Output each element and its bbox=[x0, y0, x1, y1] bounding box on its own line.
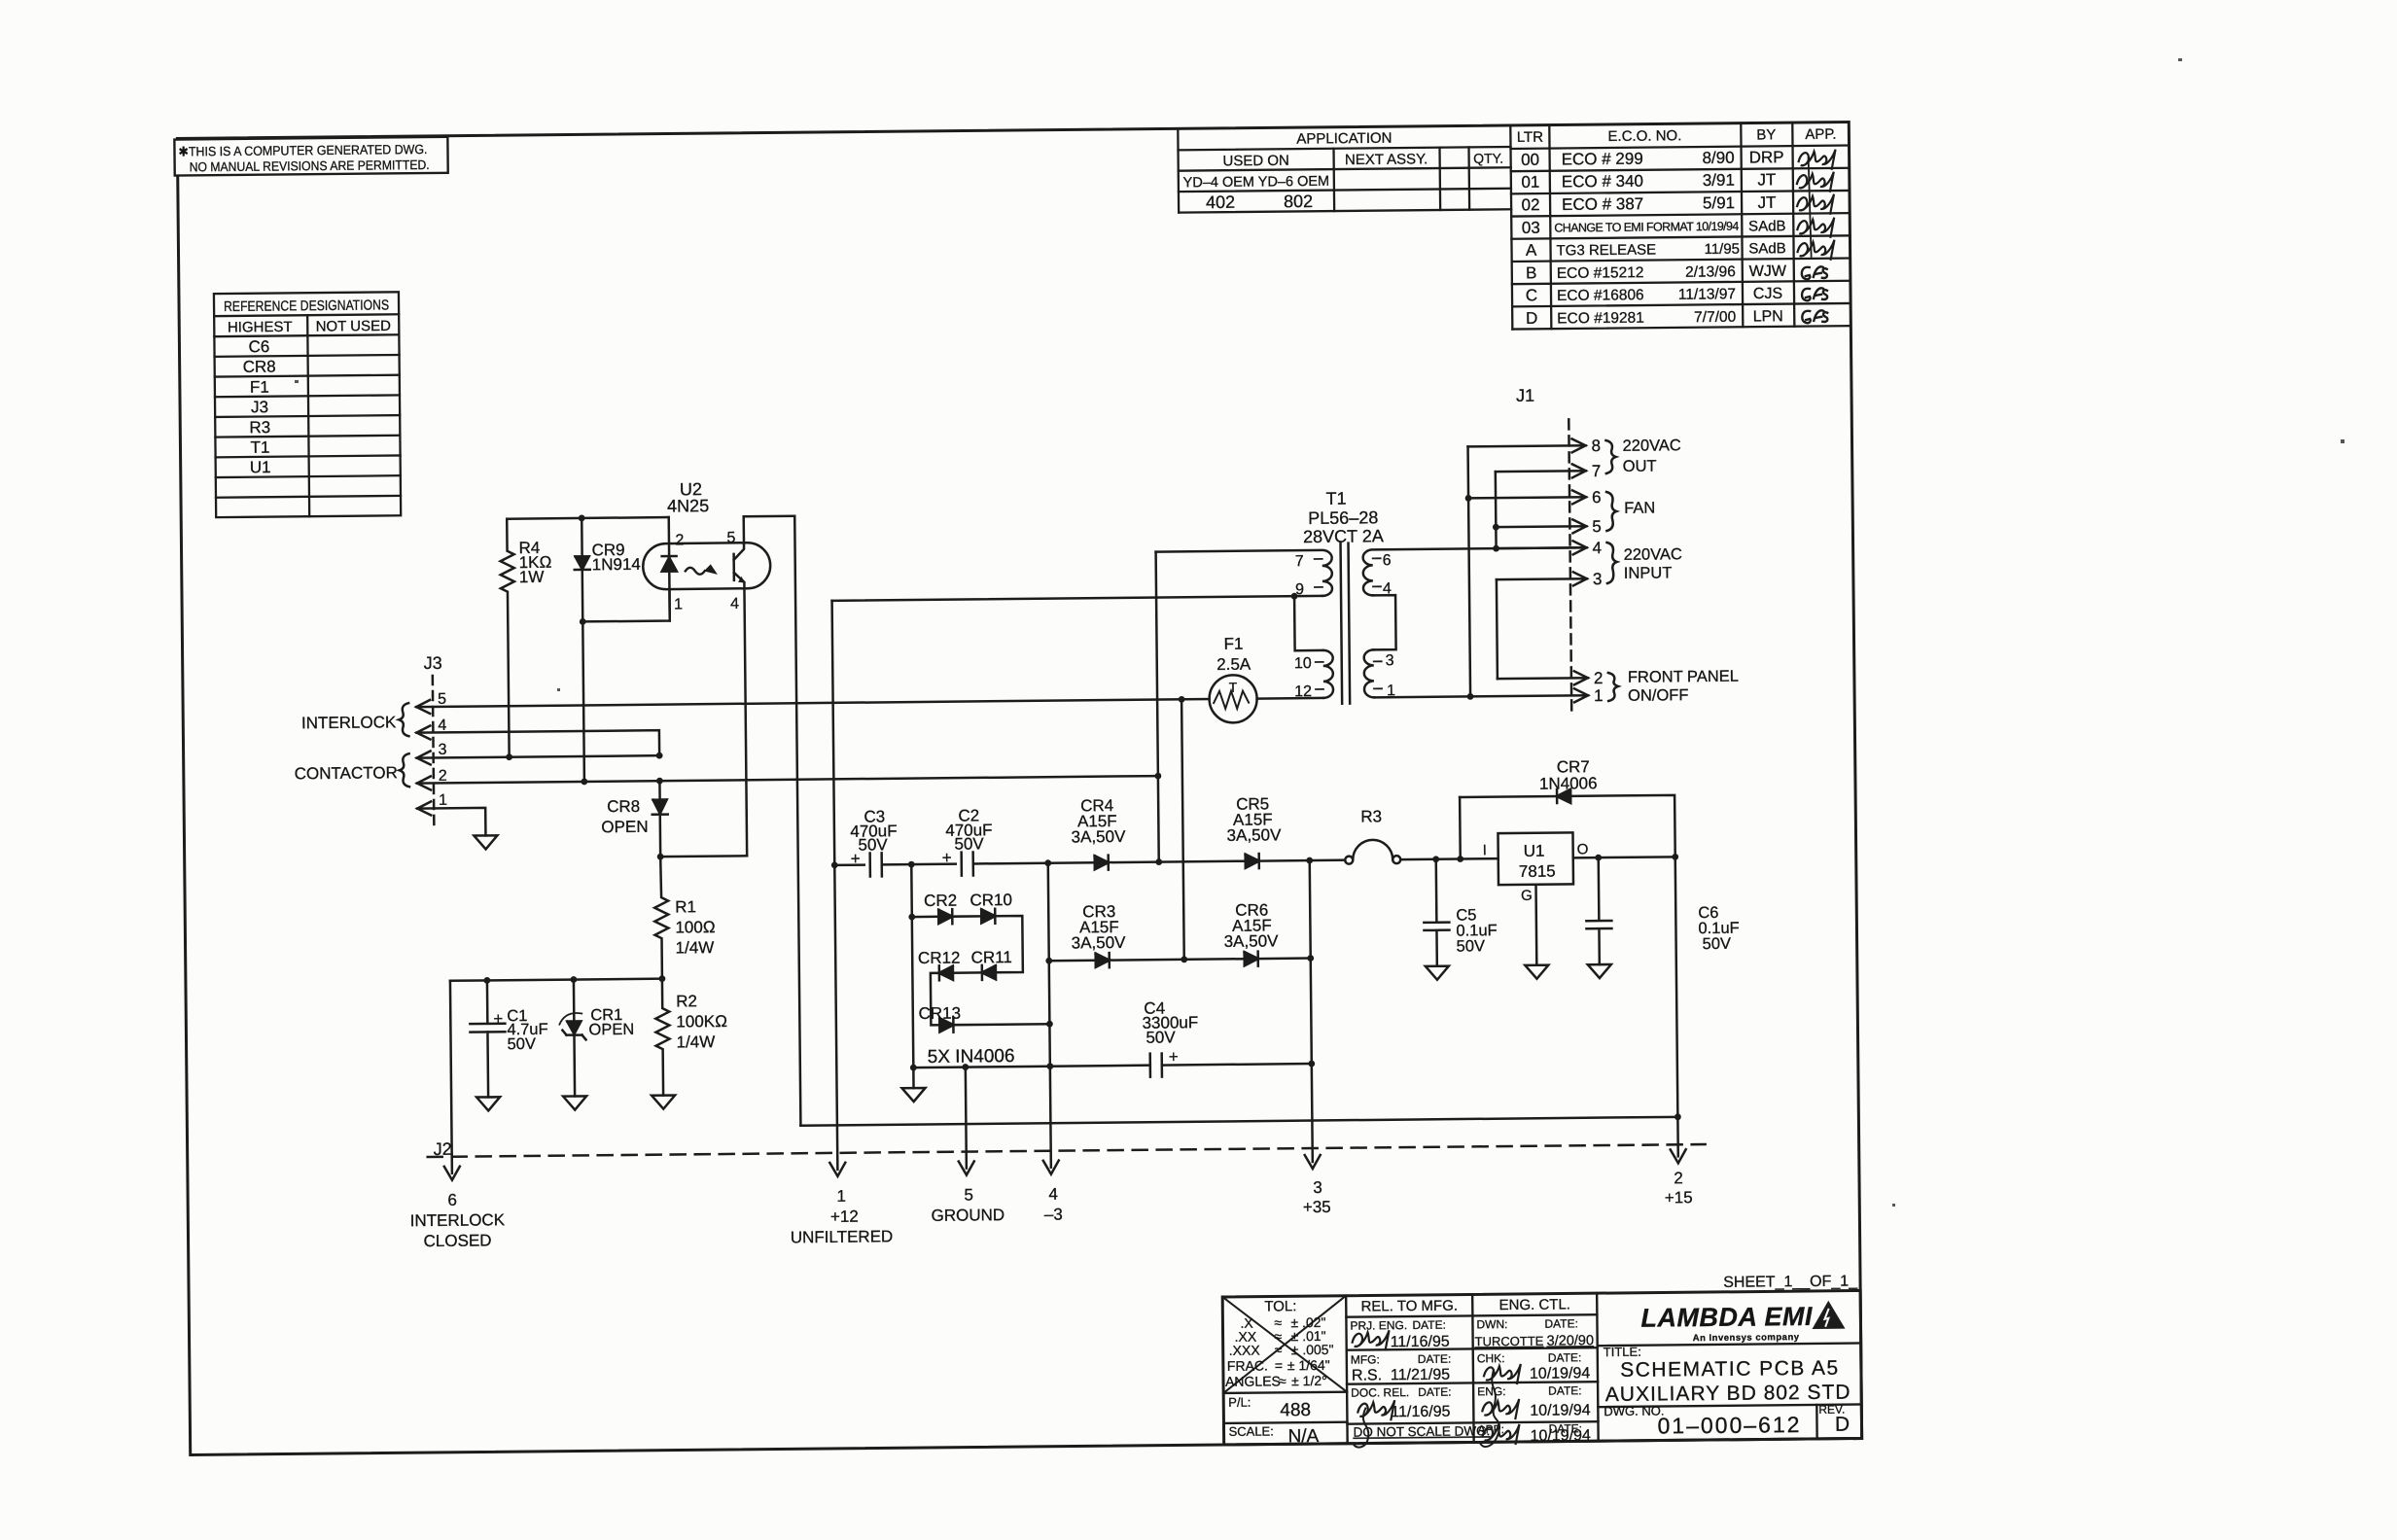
svg-text:BY: BY bbox=[1756, 126, 1776, 143]
resistor R3 jumper bbox=[1345, 857, 1353, 864]
svg-text:ANGLES: ANGLES bbox=[1225, 1373, 1281, 1389]
page border frame bbox=[177, 122, 1861, 1455]
svg-text:ECO #16806: ECO #16806 bbox=[1557, 287, 1644, 304]
wire J2 pin5 ground drop bbox=[966, 1067, 967, 1169]
svg-text:DO NOT SCALE DWG.: DO NOT SCALE DWG. bbox=[1353, 1423, 1490, 1439]
svg-text:REL. TO MFG.: REL. TO MFG. bbox=[1360, 1298, 1458, 1315]
svg-text:SAdB: SAdB bbox=[1748, 218, 1786, 234]
svg-text:CR8: CR8 bbox=[243, 358, 276, 376]
junction (601,635) bbox=[580, 618, 586, 625]
svg-text:USED ON: USED ON bbox=[1222, 153, 1289, 170]
junction (1191,888) bbox=[1155, 858, 1162, 865]
svg-text:P/L:: P/L: bbox=[1228, 1395, 1251, 1410]
diode CR11 bbox=[982, 965, 996, 980]
svg-text:28VCT 2A: 28VCT 2A bbox=[1303, 526, 1384, 546]
svg-text:O: O bbox=[1577, 841, 1589, 857]
svg-text:INTERLOCK: INTERLOCK bbox=[410, 1210, 506, 1230]
junction (1216,721) bbox=[1179, 696, 1185, 703]
svg-text:GROUND: GROUND bbox=[931, 1206, 1005, 1225]
svg-text:10: 10 bbox=[1294, 655, 1312, 672]
wire T1 pin7 vertical to contactor and CR4/CR5 node bbox=[1156, 552, 1159, 862]
svg-text:JT: JT bbox=[1758, 193, 1777, 212]
svg-text:U1: U1 bbox=[1524, 842, 1545, 860]
svg-text:+12: +12 bbox=[830, 1207, 859, 1226]
svg-text:U1: U1 bbox=[250, 458, 271, 476]
svg-text:DWN:: DWN: bbox=[1476, 1317, 1507, 1331]
svg-text:T: T bbox=[1229, 680, 1238, 695]
svg-text:100Ω: 100Ω bbox=[675, 918, 716, 936]
svg-text:50V: 50V bbox=[858, 835, 888, 854]
diode CR2 bbox=[938, 909, 952, 924]
svg-text:WJW: WJW bbox=[1749, 263, 1787, 280]
svg-text:3: 3 bbox=[1386, 652, 1394, 669]
junction (1191,799.5) bbox=[1154, 773, 1161, 780]
wire CR2 branch vertical bbox=[911, 864, 913, 1067]
labels left section bbox=[292, 479, 744, 1056]
svg-text:TURCOTTE: TURCOTTE bbox=[1475, 1334, 1544, 1349]
svg-text:REFERENCE DESIGNATIONS: REFERENCE DESIGNATIONS bbox=[224, 297, 389, 315]
svg-text:MFG:: MFG: bbox=[1351, 1352, 1380, 1366]
svg-text:FAN: FAN bbox=[1624, 500, 1655, 517]
junction (936.5,888) bbox=[908, 861, 915, 868]
svg-text:DRP: DRP bbox=[1749, 148, 1784, 166]
svg-text:TOL:: TOL: bbox=[1264, 1298, 1296, 1314]
svg-text:PRJ. ENG.: PRJ. ENG. bbox=[1350, 1318, 1407, 1333]
svg-text:J2: J2 bbox=[434, 1139, 452, 1159]
T1 secondary jog 4-3 bbox=[1373, 595, 1396, 649]
svg-text:01–000–612: 01–000–612 bbox=[1657, 1412, 1801, 1438]
svg-text:DWG. NO.: DWG. NO. bbox=[1604, 1403, 1664, 1418]
J1 vertical A pins 8-6-1 bbox=[1468, 446, 1471, 696]
junction (678.5,877.5) bbox=[657, 854, 664, 860]
svg-text:T1: T1 bbox=[1325, 489, 1346, 508]
svg-text:ECO # 299: ECO # 299 bbox=[1562, 150, 1643, 169]
svg-text:3: 3 bbox=[438, 742, 446, 758]
svg-text:–3: –3 bbox=[1044, 1206, 1063, 1224]
junction (1077,888) bbox=[1044, 859, 1051, 866]
svg-text:C6: C6 bbox=[249, 337, 270, 356]
svg-text:11/21/95: 11/21/95 bbox=[1391, 1367, 1450, 1384]
svg-text:11/16/95: 11/16/95 bbox=[1391, 1404, 1450, 1421]
junction (1722,888) bbox=[1672, 854, 1678, 860]
svg-text:D: D bbox=[1835, 1414, 1850, 1436]
svg-text:A: A bbox=[1526, 241, 1537, 260]
svg-text:CLOSED: CLOSED bbox=[424, 1231, 492, 1250]
svg-text:100KΩ: 100KΩ bbox=[676, 1012, 727, 1032]
svg-text:TG3 RELEASE: TG3 RELEASE bbox=[1556, 242, 1656, 260]
reference designations table bbox=[214, 292, 401, 517]
wire T1 sec pin1 to J1 bbox=[1374, 695, 1588, 697]
svg-text:5: 5 bbox=[1592, 517, 1602, 536]
svg-text:QTY.: QTY. bbox=[1473, 151, 1503, 166]
svg-text:1/4W: 1/4W bbox=[676, 938, 715, 957]
svg-text:R2: R2 bbox=[676, 992, 697, 1010]
svg-text:1: 1 bbox=[1387, 682, 1395, 699]
svg-text:4: 4 bbox=[1592, 539, 1602, 557]
svg-text:7: 7 bbox=[1592, 462, 1602, 480]
J3 brace contactor bbox=[400, 753, 409, 787]
J3 pin arrows bbox=[416, 700, 430, 714]
svg-text:DATE:: DATE: bbox=[1548, 1383, 1582, 1397]
capacitor C5 bbox=[1424, 859, 1450, 966]
svg-text:NO MANUAL REVISIONS ARE PERMIT: NO MANUAL REVISIONS ARE PERMITTED. bbox=[190, 157, 430, 174]
svg-text:1: 1 bbox=[1594, 686, 1604, 705]
T1 secondary upper winding bbox=[1363, 547, 1587, 595]
junction (601,528.5) bbox=[579, 514, 585, 521]
svg-text:DATE:: DATE: bbox=[1412, 1318, 1446, 1332]
svg-text:5: 5 bbox=[964, 1185, 973, 1204]
title block signatures bbox=[1353, 1329, 1522, 1448]
wire J1 pin3 bbox=[1497, 577, 1587, 580]
svg-text:+: + bbox=[493, 1009, 503, 1028]
U1 ground pin bbox=[1534, 885, 1537, 965]
svg-text:50V: 50V bbox=[1457, 937, 1486, 955]
svg-text:1W: 1W bbox=[519, 568, 545, 586]
svg-text:CHANGE TO EMI FORMAT 10/19/94: CHANGE TO EMI FORMAT 10/19/94 bbox=[1554, 220, 1739, 235]
wire J3 pin5 to F1 to T1 pin12 bbox=[416, 699, 1209, 707]
svg-text:F1: F1 bbox=[1224, 635, 1244, 653]
svg-text:3: 3 bbox=[1313, 1178, 1322, 1197]
svg-text:4: 4 bbox=[730, 596, 739, 612]
notice box bbox=[174, 137, 447, 176]
svg-text:4: 4 bbox=[1048, 1185, 1058, 1204]
junction (1346,1097) bbox=[1308, 1061, 1315, 1067]
resistor R1 bbox=[654, 857, 669, 979]
junction (1501,888) bbox=[1457, 856, 1463, 862]
svg-text:SAdB: SAdB bbox=[1748, 240, 1786, 257]
svg-text:AUXILIARY BD 802 STD: AUXILIARY BD 802 STD bbox=[1605, 1382, 1851, 1406]
ground at R2 bbox=[652, 1096, 675, 1109]
svg-text:PL56–28: PL56–28 bbox=[1308, 507, 1378, 528]
svg-text:488: 488 bbox=[1280, 1400, 1311, 1420]
diode CR9 bbox=[574, 518, 592, 782]
svg-text:ECO #15212: ECO #15212 bbox=[1557, 264, 1644, 282]
svg-text:50V: 50V bbox=[507, 1035, 536, 1053]
wire J1 pin7 bbox=[1496, 470, 1586, 472]
svg-text:2: 2 bbox=[1674, 1169, 1683, 1187]
J1 braces bbox=[1605, 440, 1615, 473]
wire J3 pin1 to ground bbox=[417, 808, 485, 836]
svg-text:OUT: OUT bbox=[1623, 458, 1657, 475]
U2 LED bbox=[661, 517, 677, 621]
svg-text:+: + bbox=[851, 850, 861, 868]
svg-text:FRONT PANEL: FRONT PANEL bbox=[1628, 668, 1739, 686]
regulator U1 7815 bbox=[1498, 832, 1573, 885]
junction (1333,616) bbox=[1291, 593, 1298, 600]
svg-text:03: 03 bbox=[1522, 219, 1540, 237]
ground under CR2 branch bbox=[912, 1067, 915, 1088]
svg-text:2: 2 bbox=[1594, 669, 1604, 687]
wire C4 row bbox=[913, 1066, 1149, 1067]
svg-text:CR13: CR13 bbox=[918, 1004, 961, 1023]
svg-text:DATE:: DATE: bbox=[1548, 1350, 1582, 1364]
svg-text:8: 8 bbox=[1591, 437, 1601, 455]
svg-text:02: 02 bbox=[1522, 195, 1540, 214]
svg-text:3: 3 bbox=[1593, 570, 1603, 588]
svg-text:12: 12 bbox=[1294, 683, 1312, 700]
wire T1 pin9 to C3 node bbox=[832, 596, 1322, 601]
svg-text:3/91: 3/91 bbox=[1703, 171, 1735, 190]
diode CR13 bbox=[939, 1018, 953, 1032]
svg-text:01: 01 bbox=[1521, 173, 1539, 192]
junction (936.5,942) bbox=[908, 914, 915, 921]
title block bbox=[1222, 1290, 1861, 1444]
svg-text:.XXX: .XXX bbox=[1229, 1343, 1261, 1358]
wire J1 pin5 bbox=[1496, 525, 1586, 528]
wire CR3/CR6 row bbox=[1049, 959, 1096, 962]
svg-text:50V: 50V bbox=[1703, 935, 1732, 953]
svg-text:R3: R3 bbox=[1360, 807, 1382, 825]
svg-text:+: + bbox=[1169, 1047, 1179, 1066]
diode CR7 bbox=[1459, 797, 1462, 858]
transformer T1 primary upper winding bbox=[1156, 550, 1332, 598]
capacitor C2 bbox=[962, 852, 973, 875]
junction (990,1097) bbox=[962, 1064, 969, 1070]
junction (601,799.5) bbox=[581, 778, 587, 785]
svg-text:NEXT ASSY.: NEXT ASSY. bbox=[1345, 151, 1428, 168]
svg-text:ENG:: ENG: bbox=[1477, 1384, 1505, 1398]
svg-text:5X IN4006: 5X IN4006 bbox=[928, 1046, 1015, 1067]
wire J3 pin2 contactor bbox=[417, 776, 1158, 784]
svg-text:SCALE:: SCALE: bbox=[1228, 1423, 1273, 1438]
application table bbox=[1178, 125, 1511, 213]
T1 secondary lower winding bbox=[1364, 649, 1374, 697]
svg-text:+: + bbox=[942, 849, 952, 867]
capacitor C3 bbox=[870, 853, 882, 876]
U2 light arrow bbox=[686, 568, 705, 575]
svg-text:DATE:: DATE: bbox=[1544, 1316, 1578, 1330]
resistor R2 bbox=[655, 979, 670, 1096]
op-amp U2 optocoupler body bbox=[643, 542, 770, 589]
svg-text:ON/OFF: ON/OFF bbox=[1628, 686, 1689, 705]
wire CR8 to U2 pin4 bbox=[660, 855, 747, 857]
svg-text:220VAC: 220VAC bbox=[1622, 437, 1680, 455]
svg-text:T1: T1 bbox=[250, 438, 269, 457]
svg-text:402: 402 bbox=[1206, 192, 1235, 212]
J1 pin arrows bbox=[1571, 438, 1585, 452]
Lambda EMI logo bbox=[1640, 1301, 1845, 1345]
svg-text:INTERLOCK: INTERLOCK bbox=[301, 713, 397, 732]
svg-text:E.C.O. NO.: E.C.O. NO. bbox=[1607, 127, 1681, 145]
svg-text:I: I bbox=[1483, 842, 1487, 858]
svg-text:+15: +15 bbox=[1665, 1188, 1693, 1207]
junction (936.5,1097) bbox=[910, 1065, 917, 1071]
svg-text:1: 1 bbox=[836, 1187, 846, 1206]
ground at C1 bbox=[476, 1097, 500, 1110]
svg-text:APPLICATION: APPLICATION bbox=[1296, 130, 1392, 148]
svg-text:DATE:: DATE: bbox=[1418, 1385, 1452, 1399]
svg-text:50V: 50V bbox=[954, 834, 984, 853]
svg-text:CR10: CR10 bbox=[969, 891, 1012, 909]
J2 labels bbox=[409, 1127, 1693, 1250]
svg-text:2.5A: 2.5A bbox=[1216, 655, 1251, 674]
junction (678.5,773.5) bbox=[656, 752, 663, 759]
page specks bbox=[295, 58, 2344, 1207]
junction (1077,988.5) bbox=[1045, 958, 1052, 964]
svg-text:5: 5 bbox=[438, 691, 446, 708]
svg-text:B: B bbox=[1526, 263, 1537, 282]
svg-text:10/19/94: 10/19/94 bbox=[1530, 1365, 1591, 1382]
junction (1476,888) bbox=[1432, 856, 1439, 862]
wire R4 CR9 LED top bbox=[507, 517, 668, 519]
diode CR3 bbox=[1096, 953, 1110, 967]
svg-text:6: 6 bbox=[1592, 488, 1602, 507]
svg-text:NOT USED: NOT USED bbox=[316, 318, 392, 335]
connector J1 dashed line bbox=[1569, 419, 1571, 716]
svg-text:10/19/94: 10/19/94 bbox=[1531, 1427, 1592, 1445]
svg-text:4: 4 bbox=[438, 717, 446, 734]
wire interlock closed J2 pin6 bbox=[450, 981, 452, 1173]
J2 pin6 arrow bbox=[444, 1167, 460, 1180]
junction (1216,988.5) bbox=[1181, 956, 1187, 962]
svg-text:5: 5 bbox=[726, 530, 735, 546]
svg-text:≈: ≈ bbox=[1279, 1373, 1287, 1388]
svg-text:2: 2 bbox=[675, 532, 684, 548]
diode CR10 bbox=[981, 909, 995, 924]
junction (1346,888) bbox=[1306, 857, 1313, 864]
svg-text:± 1/2°: ± 1/2° bbox=[1291, 1373, 1327, 1388]
junction (1643,888) bbox=[1595, 855, 1602, 861]
junction (1077,1097) bbox=[1046, 1063, 1053, 1069]
diode CR4 bbox=[1095, 856, 1109, 870]
diode CR12 bbox=[939, 965, 953, 980]
svg-text:TITLE:: TITLE: bbox=[1604, 1345, 1641, 1359]
svg-text:An Invensys company: An Invensys company bbox=[1693, 1332, 1800, 1344]
labels right section bbox=[1357, 384, 1742, 957]
wire U2 pin1 row bbox=[582, 589, 670, 621]
U2 phototransistor bbox=[733, 516, 747, 856]
svg-text:HIGHEST: HIGHEST bbox=[228, 319, 293, 336]
wire main rectifier rail bbox=[834, 863, 864, 866]
svg-text:2/13/96: 2/13/96 bbox=[1685, 263, 1736, 281]
wire J1 pin8 bbox=[1468, 445, 1586, 446]
svg-text:6: 6 bbox=[447, 1191, 457, 1209]
svg-text:OPEN: OPEN bbox=[588, 1021, 634, 1038]
svg-text:CR2: CR2 bbox=[924, 892, 957, 910]
svg-text:≈: ≈ bbox=[1275, 1342, 1283, 1357]
T1 core bbox=[1341, 543, 1351, 704]
wire J2 pin3 +35 vertical bbox=[1310, 860, 1313, 1162]
zener CR1 bbox=[562, 979, 586, 1096]
svg-text:3/20/90: 3/20/90 bbox=[1547, 1333, 1595, 1348]
svg-text:1: 1 bbox=[674, 596, 683, 612]
svg-text:11/95: 11/95 bbox=[1704, 241, 1740, 258]
junction (1346,988.5) bbox=[1307, 955, 1314, 962]
svg-text:SHEET_1__OF_1_: SHEET_1__OF_1_ bbox=[1723, 1273, 1858, 1290]
junction (1513,721) bbox=[1467, 693, 1474, 700]
junction (1077,1053.5) bbox=[1046, 1021, 1053, 1028]
capacitor C4 bbox=[1150, 1054, 1162, 1077]
junction (1513,517) bbox=[1465, 495, 1472, 502]
svg-text:=: = bbox=[1275, 1357, 1283, 1373]
junction dots right section bbox=[1429, 493, 1679, 862]
svg-text:CONTACTOR: CONTACTOR bbox=[295, 763, 398, 783]
svg-text:CR8: CR8 bbox=[607, 797, 640, 816]
junction (1541,547) bbox=[1493, 524, 1499, 531]
svg-text:UNFILTERED: UNFILTERED bbox=[791, 1227, 894, 1246]
svg-text:FRAC.: FRAC. bbox=[1227, 1358, 1268, 1374]
junction dots middle section bbox=[828, 589, 1681, 1129]
svg-text:CJS: CJS bbox=[1753, 286, 1782, 302]
svg-text:J3: J3 bbox=[424, 653, 442, 673]
wire F1 junction vertical bbox=[1181, 699, 1184, 959]
svg-text:DATE:: DATE: bbox=[1418, 1352, 1452, 1366]
svg-text:4N25: 4N25 bbox=[667, 496, 709, 515]
svg-text:J3: J3 bbox=[251, 398, 268, 416]
svg-text:SCHEMATIC PCB A5: SCHEMATIC PCB A5 bbox=[1620, 1357, 1840, 1382]
svg-text:LTR: LTR bbox=[1517, 129, 1544, 146]
svg-text:11/13/97: 11/13/97 bbox=[1678, 286, 1736, 303]
labels middle section bbox=[847, 488, 1389, 1068]
svg-text:9: 9 bbox=[1295, 581, 1304, 598]
wire J3 pin3 bbox=[417, 755, 659, 757]
svg-text:R3: R3 bbox=[249, 418, 270, 437]
junction (678.5,799.5) bbox=[656, 778, 663, 785]
svg-text:JT: JT bbox=[1757, 170, 1776, 189]
revision table bbox=[1510, 122, 1851, 330]
svg-text:11/16/95: 11/16/95 bbox=[1391, 1334, 1450, 1351]
resistor R4 bbox=[500, 519, 515, 757]
ground at CR1 bbox=[563, 1096, 586, 1109]
junction (588,1003) bbox=[570, 976, 577, 983]
svg-text:4: 4 bbox=[1383, 580, 1392, 597]
wire +15 rail bbox=[800, 1117, 1677, 1126]
wire +12 unfiltered J2 pin1 bbox=[832, 601, 838, 1170]
svg-text:ENG. CTL.: ENG. CTL. bbox=[1499, 1296, 1571, 1313]
svg-text:802: 802 bbox=[1284, 192, 1313, 211]
junction dots left section bbox=[479, 514, 666, 984]
svg-text:7: 7 bbox=[1295, 553, 1304, 570]
svg-text:00: 00 bbox=[1521, 151, 1539, 169]
wire C1 row bbox=[450, 979, 662, 981]
junction (499,1003) bbox=[483, 977, 490, 984]
svg-text:50V: 50V bbox=[1146, 1028, 1176, 1046]
svg-text:6: 6 bbox=[1383, 552, 1392, 569]
T1 pin tick marks bbox=[1315, 558, 1382, 689]
svg-text:ECO #19281: ECO #19281 bbox=[1557, 310, 1644, 328]
svg-text:LAMBDA EMI: LAMBDA EMI bbox=[1640, 1302, 1813, 1333]
junction (1541,569) bbox=[1493, 545, 1499, 552]
J1 vertical B pins 7-5-4 bbox=[1495, 472, 1498, 548]
svg-text:G: G bbox=[1521, 888, 1533, 904]
wire J2 pin2 +15 vertical bbox=[1675, 857, 1678, 1156]
capacitor C6 bbox=[1586, 857, 1612, 964]
svg-text:± 1/64": ± 1/64" bbox=[1287, 1357, 1330, 1373]
svg-text:YD–4 OEM YD–6 OEM: YD–4 OEM YD–6 OEM bbox=[1183, 174, 1330, 191]
svg-text:CHK:: CHK: bbox=[1477, 1351, 1505, 1365]
svg-text:INPUT: INPUT bbox=[1624, 564, 1673, 581]
T1 primary lower winding bbox=[1323, 650, 1333, 698]
svg-text:3A,50V: 3A,50V bbox=[1072, 933, 1127, 953]
svg-text:+35: +35 bbox=[1303, 1198, 1331, 1216]
svg-text:R.S.: R.S. bbox=[1352, 1367, 1382, 1383]
ground at J3 pin1 bbox=[474, 835, 497, 849]
wire CR2/CR10 row bbox=[912, 916, 938, 919]
wire J1 pin4 from T1 bbox=[1497, 546, 1587, 549]
svg-text:1/4W: 1/4W bbox=[676, 1032, 715, 1051]
svg-text:ECO # 340: ECO # 340 bbox=[1562, 172, 1643, 192]
connector J2 dashed line bbox=[428, 1144, 1706, 1157]
svg-text:1N4006: 1N4006 bbox=[1539, 774, 1598, 793]
fuse F1 bbox=[1209, 675, 1256, 722]
svg-text:8/90: 8/90 bbox=[1702, 149, 1734, 167]
svg-text:C: C bbox=[1526, 286, 1537, 304]
svg-text:✱THIS IS A COMPUTER GENERATED: ✱THIS IS A COMPUTER GENERATED DWG. bbox=[178, 142, 427, 159]
svg-text:R1: R1 bbox=[675, 897, 696, 916]
svg-text:3A,50V: 3A,50V bbox=[1224, 931, 1280, 951]
svg-text:220VAC: 220VAC bbox=[1624, 545, 1682, 564]
svg-text:LPN: LPN bbox=[1753, 308, 1783, 325]
